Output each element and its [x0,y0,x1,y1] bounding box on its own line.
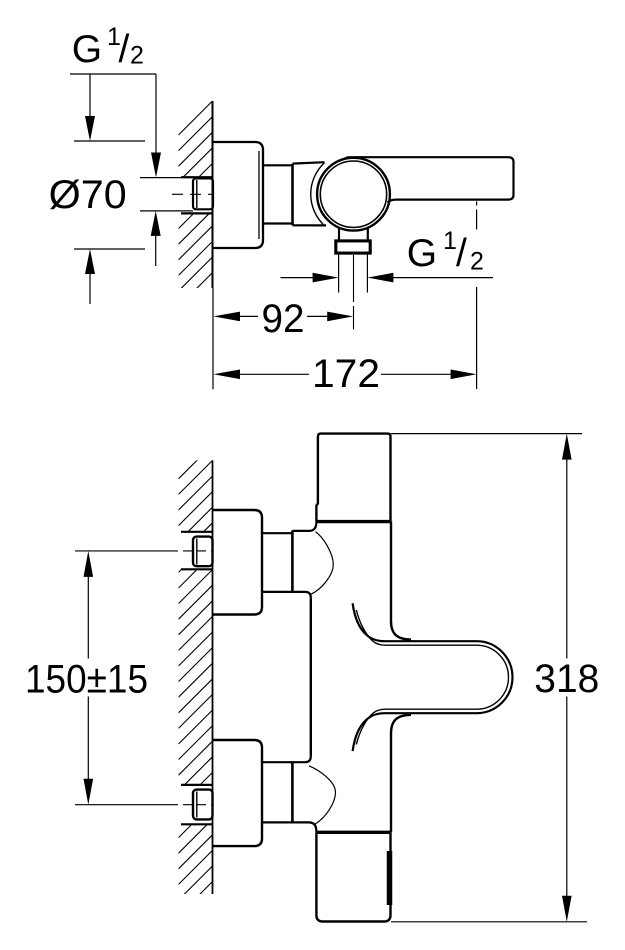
svg-text:172: 172 [312,352,380,396]
lever handle (side view) [339,157,514,202]
thick joint line lower [316,831,390,834]
handle tongue outer outline [353,603,513,751]
G1/2 leader shelf line [70,73,156,75]
extension line at x=476.6 (lever tip reference) [476,202,478,390]
dimension 150+-15 (connection spacing) [25,551,148,805]
label G1/2 (outlet thread) [407,227,484,276]
body cylinder section [263,165,293,223]
body bottom section [316,832,390,921]
outlet thread pipe [339,253,368,293]
dark shading on bottom right edge [387,851,393,905]
thick joint line upper [316,520,390,523]
G1/2 outlet dimension arrows (arrows outside, pointing at thread) [281,273,494,283]
pipe outline extension lines [140,177,193,179]
svg-text:2: 2 [130,42,144,70]
lower inlet nipple [193,790,213,820]
dimension arrow down to escutcheon top (O70 upper) [85,74,95,141]
label G1/2 (wall connection, top left) [72,23,144,71]
svg-text:/: / [119,28,130,71]
lower escutcheon (front view) [213,740,262,846]
cone section to valve [293,162,327,225]
wall hatching (top view) [179,101,213,416]
upper union centerline / extension line [75,550,212,552]
svg-text:G: G [72,28,102,71]
lower S-union sphere edge [309,766,336,825]
svg-text:G: G [407,232,437,275]
extension line escutcheon bottom [74,248,145,250]
outlet centerline [353,255,355,330]
lower union centerline / extension line [75,804,212,806]
lower boss vertical [291,761,294,823]
svg-text:1: 1 [443,227,457,255]
svg-text:92: 92 [262,297,305,341]
wall hole edge lines [181,176,212,178]
handle knob inner circle [320,161,386,227]
backplate arc behind handle knob [311,163,325,225]
handle tongue inner outline [356,610,508,744]
318 extension line bottom [391,921,587,923]
upper boss outline into body [292,521,316,599]
flange line [291,164,294,225]
wall line (top view) [212,101,214,288]
upper inlet nipple [193,537,213,567]
extension line escutcheon top [74,140,145,142]
dimension 172 (wall to reference) [213,352,476,396]
wall hole edges upper union [181,532,213,570]
inlet nipple (threaded, behind wall) [193,178,213,209]
svg-text:Ø70: Ø70 [49,173,127,217]
lower union cylinder [262,762,292,822]
lower boss outline into body [292,755,316,832]
318 extension line top [391,433,582,435]
upper escutcheon (front view) [213,510,262,615]
wall hole edges lower union [181,785,213,824]
svg-text:318: 318 [534,657,599,701]
G1/2 leader vertical with arrow down to pipe top [151,74,161,178]
dimension arrow up to pipe bottom (G1/2 thread) [151,211,161,266]
svg-text:2: 2 [470,248,484,276]
outlet neck below knob [339,228,368,241]
body top section [316,434,390,522]
escutcheon (side view) [213,142,263,248]
upper boss vertical [291,531,294,593]
upper union cylinder [262,533,292,592]
svg-text:/: / [456,232,467,275]
wall hatching (bottom view) [179,445,213,916]
dimension 318 (total height) [534,434,599,922]
svg-text:150±15: 150±15 [25,658,148,702]
pipe centerline dashes [172,193,212,195]
dimension 92 (wall to outlet axis) [213,297,353,341]
wall line (bottom view) [212,460,214,894]
upper S-union sphere edge [311,532,334,595]
outlet collar ring [336,241,370,253]
body mid left edge [310,599,312,755]
handle knob outer circle [317,158,390,231]
dimension arrow up to escutcheon bottom (O70 lower) [85,249,95,304]
body mid right edge with fillets [391,521,411,832]
